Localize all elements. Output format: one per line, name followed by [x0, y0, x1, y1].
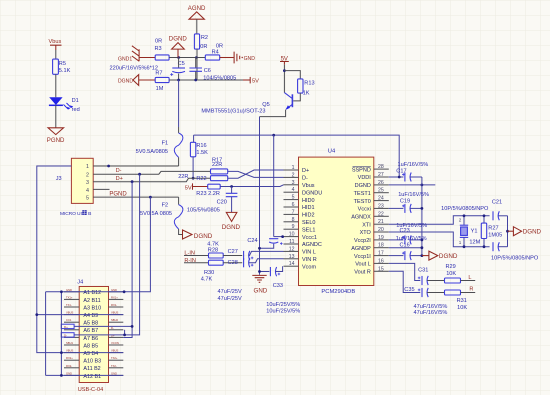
port D+ (J4 left) [61, 324, 74, 329]
svg-text:A2 B11: A2 B11 [83, 298, 100, 304]
svg-text:J4: J4 [77, 280, 83, 286]
wire [196, 19, 198, 34]
svg-text:C35: C35 [404, 287, 414, 293]
svg-text:AGNDC: AGNDC [302, 242, 322, 248]
svg-text:XTI: XTI [362, 222, 371, 228]
svg-text:3: 3 [86, 180, 89, 186]
svg-text:C33: C33 [273, 283, 283, 289]
svg-text:A12 B1: A12 B1 [83, 374, 101, 380]
wire D- column [74, 174, 140, 335]
resistor R2 [194, 34, 208, 50]
resistor R29 [445, 264, 476, 283]
wire row A1 through box [64, 291, 123, 293]
svg-text:20: 20 [378, 227, 384, 233]
wire rail to DGND [422, 255, 429, 257]
wire [220, 57, 234, 59]
svg-text:VBUS: VBUS [111, 349, 119, 353]
svg-text:VBUS: VBUS [111, 311, 119, 315]
wire [196, 49, 198, 80]
svg-text:10K: 10K [446, 271, 456, 277]
svg-text:D-: D- [116, 168, 122, 174]
crystal Y1 [459, 216, 481, 247]
SSPND overline [353, 166, 371, 168]
wire [139, 57, 155, 59]
svg-text:16: 16 [378, 258, 384, 264]
wire crossover D+/D- [228, 170, 284, 178]
svg-text:R3: R3 [155, 46, 162, 52]
svg-text:R13: R13 [304, 81, 314, 87]
wire [284, 71, 300, 79]
node [463, 214, 466, 217]
wire stub jog B7 [124, 330, 126, 335]
J4 left net labels [66, 288, 74, 376]
svg-text:D+: D+ [302, 168, 309, 174]
svg-text:4.7K: 4.7K [201, 277, 213, 283]
svg-text:C24: C24 [247, 238, 257, 244]
wire [139, 79, 156, 81]
wire (R16 top) [193, 135, 195, 142]
svg-text:0R: 0R [200, 44, 207, 50]
wire (DGND loop rail) [194, 135, 400, 177]
resistor R3 [155, 38, 170, 60]
svg-text:R2: R2 [201, 35, 208, 41]
svg-text:10: 10 [289, 232, 295, 238]
node [60, 290, 63, 293]
svg-text:GND: GND [66, 288, 72, 292]
node [123, 290, 126, 293]
node [35, 313, 38, 316]
svg-text:2: 2 [292, 172, 295, 178]
svg-text:TX1+: TX1+ [66, 295, 73, 299]
svg-text:10uF/25V/5%: 10uF/25V/5% [266, 308, 300, 314]
svg-text:47uF/25V: 47uF/25V [218, 296, 243, 302]
svg-text:A11 B2: A11 B2 [83, 366, 100, 372]
svg-text:25: 25 [378, 188, 384, 194]
wire [55, 74, 57, 97]
U4 left pin names [302, 168, 322, 270]
svg-text:RX1-: RX1- [111, 303, 117, 307]
svg-text:A8 B5: A8 B5 [83, 343, 98, 349]
capacitor C20 [217, 187, 238, 213]
capacitor C19 [389, 192, 429, 213]
power port 5V (right) [250, 77, 259, 85]
svg-text:26: 26 [378, 180, 384, 186]
svg-text:1K: 1K [303, 91, 310, 97]
node [421, 254, 424, 257]
node [283, 69, 286, 72]
svg-text:24: 24 [378, 196, 384, 202]
svg-text:2: 2 [459, 218, 462, 223]
connector J3 [56, 158, 93, 217]
svg-text:MMBT5551(G1u)/SOT-23: MMBT5551(G1u)/SOT-23 [201, 108, 265, 114]
node [60, 351, 63, 354]
svg-text:Vbus: Vbus [302, 183, 315, 189]
svg-text:GND: GND [254, 288, 268, 295]
svg-text:Vccp1I: Vccp1I [354, 254, 371, 260]
resistor R30 [184, 260, 242, 282]
wire [169, 79, 243, 81]
svg-text:R23: R23 [196, 191, 206, 197]
wire GND A12 row [46, 374, 64, 376]
svg-text:XTO: XTO [360, 230, 372, 236]
svg-text:HID1: HID1 [302, 205, 315, 211]
node [149, 196, 152, 199]
svg-text:SSPND: SSPND [352, 167, 371, 173]
svg-text:10P/5%/0805/NPO: 10P/5%/0805/NPO [491, 256, 539, 262]
U4 right pin names [351, 167, 371, 275]
svg-text:GND: GND [111, 371, 117, 375]
U4 left pins 1-14 [284, 170, 299, 266]
svg-text:5V0.5A/0805: 5V0.5A/0805 [136, 149, 168, 155]
svg-text:4: 4 [292, 187, 295, 193]
resistor R31 [445, 290, 476, 311]
ground GND (earth) [234, 52, 255, 64]
svg-text:3: 3 [292, 180, 295, 186]
svg-text:AGND: AGND [188, 5, 206, 12]
resistor R16 [190, 142, 208, 157]
svg-text:R29: R29 [446, 264, 456, 270]
capacitor C33 [260, 266, 283, 289]
svg-text:105/5%/0805: 105/5%/0805 [187, 207, 220, 213]
svg-text:R5: R5 [59, 61, 66, 67]
node [272, 134, 275, 137]
wire Vout L [389, 263, 421, 280]
node [107, 165, 110, 168]
wire pin2 (D-) [93, 171, 210, 174]
svg-text:R16: R16 [196, 143, 206, 149]
svg-text:DGND: DGND [169, 36, 188, 43]
svg-text:C28: C28 [228, 260, 238, 266]
svg-text:22R: 22R [178, 174, 188, 180]
node [138, 173, 141, 176]
resistor R23 [196, 184, 220, 197]
capacitor C22 (top) [493, 211, 508, 220]
resistor R28 [184, 241, 242, 258]
svg-text:D-: D- [64, 334, 67, 338]
ground PGND [47, 128, 65, 144]
power port AGND [188, 5, 206, 19]
wire [55, 50, 57, 59]
svg-text:12M: 12M [469, 239, 480, 245]
node [421, 239, 424, 242]
svg-text:C21: C21 [492, 199, 502, 205]
wire pin3 (D+) [93, 178, 210, 182]
node [421, 246, 424, 249]
wire Vout R [389, 271, 421, 292]
wire GND A1 row [46, 291, 64, 293]
node [281, 235, 284, 238]
wire D+ column [123, 182, 132, 338]
svg-text:0R: 0R [216, 43, 223, 49]
svg-text:4: 4 [86, 188, 89, 194]
resistor R7 [155, 71, 169, 92]
svg-text:L: L [468, 275, 471, 281]
wire [293, 93, 300, 101]
node [421, 207, 424, 210]
capacitor C27 [228, 249, 284, 260]
svg-text:DGNDU: DGNDU [302, 190, 322, 196]
node [483, 214, 486, 217]
resistor R5 [53, 59, 71, 74]
capacitor C35 [404, 287, 444, 297]
svg-text:220uF/16V/5%6*12: 220uF/16V/5%6*12 [110, 65, 159, 71]
svg-text:RX2+: RX2+ [66, 356, 73, 360]
node [258, 247, 261, 250]
wire pin4 stub [93, 188, 109, 190]
svg-text:Q5: Q5 [262, 102, 269, 108]
node [131, 325, 134, 328]
svg-text:C27: C27 [228, 249, 238, 255]
wire (emitter run) [260, 110, 286, 117]
U4 right pins 28-15 [374, 169, 389, 271]
svg-text:1uF/16V/5%: 1uF/16V/5% [398, 192, 429, 198]
wire XTO [389, 232, 490, 247]
svg-text:DGND: DGND [222, 224, 241, 231]
svg-text:5V: 5V [252, 79, 259, 85]
svg-text:Vccp2I: Vccp2I [354, 238, 371, 244]
svg-text:C6: C6 [204, 68, 211, 74]
svg-text:PCM2904DB: PCM2904DB [321, 289, 355, 295]
J4 right pin stubs [109, 292, 124, 376]
resistor R27 [481, 216, 502, 247]
svg-text:VCON: VCON [111, 341, 119, 345]
svg-text:6: 6 [292, 202, 295, 208]
svg-text:10uF/25V/5%: 10uF/25V/5% [266, 302, 300, 308]
svg-text:U4: U4 [328, 149, 336, 155]
svg-text:red: red [72, 107, 80, 113]
capacitor C31 [418, 267, 445, 285]
power port Vbus [49, 39, 62, 50]
svg-text:22: 22 [378, 211, 384, 217]
node [230, 185, 233, 188]
wire (R16 bottom) [192, 157, 194, 178]
LED D1 [49, 97, 80, 113]
power port DGND (left) [118, 75, 139, 86]
svg-text:SEL0: SEL0 [302, 220, 315, 226]
port D- (J4 left) [61, 333, 74, 338]
svg-text:R27: R27 [488, 225, 498, 231]
svg-text:Vccc1: Vccc1 [302, 235, 317, 241]
svg-text:D-: D- [302, 176, 308, 182]
svg-text:8: 8 [292, 217, 295, 223]
svg-text:DGND: DGND [194, 233, 213, 240]
U4 right pin numbers [378, 164, 384, 272]
svg-text:47uF/16V/5%: 47uF/16V/5% [414, 310, 448, 316]
svg-text:1: 1 [292, 165, 295, 171]
wire [55, 105, 57, 128]
wire pin5 [93, 196, 178, 198]
fuse F2 [140, 197, 220, 234]
capacitor C16 [389, 236, 427, 260]
node [177, 56, 180, 59]
wire cap rail [421, 177, 423, 256]
power port 5V (R23) [185, 183, 208, 191]
svg-text:DGND: DGND [523, 229, 542, 236]
svg-text:C23: C23 [400, 228, 410, 234]
resistor R13 [298, 79, 315, 97]
wire D+ to port [74, 325, 132, 327]
power port 5V (Q5) [280, 56, 289, 65]
svg-text:VDDI: VDDI [358, 175, 372, 181]
node [60, 374, 63, 377]
svg-text:R30: R30 [204, 270, 214, 276]
svg-text:12: 12 [289, 246, 295, 252]
connector J4 [77, 280, 108, 394]
svg-text:9: 9 [292, 224, 295, 230]
svg-text:A6 B7: A6 B7 [83, 328, 98, 334]
svg-text:J3: J3 [56, 176, 62, 182]
svg-text:PGND: PGND [109, 191, 127, 197]
svg-text:47uF/16V/5%: 47uF/16V/5% [414, 304, 448, 310]
svg-text:0R: 0R [155, 38, 162, 44]
wire GND right (J3 pin5 to B12) [124, 197, 150, 292]
svg-text:R: R [469, 286, 473, 292]
wire pin26 DGND [389, 184, 436, 186]
wire to DGND [508, 230, 514, 232]
svg-text:1uF/16V/5%: 1uF/16V/5% [396, 236, 427, 242]
wire (long vertical to C24) [273, 135, 275, 237]
wire row A9 through box [64, 352, 123, 354]
svg-text:5: 5 [86, 196, 89, 202]
svg-text:Vbus: Vbus [49, 39, 62, 45]
node [123, 334, 126, 337]
wire right edge [507, 216, 509, 247]
svg-text:A9 B4: A9 B4 [83, 351, 98, 357]
svg-text:F1: F1 [162, 140, 169, 146]
svg-text:7: 7 [292, 209, 295, 215]
svg-text:4.7K: 4.7K [207, 241, 219, 247]
capacitor C17 [389, 162, 429, 182]
svg-text:5: 5 [292, 195, 295, 201]
svg-text:VIN R: VIN R [302, 257, 317, 263]
J4 row texts [83, 290, 101, 380]
svg-text:HID0: HID0 [302, 198, 315, 204]
svg-text:DGND: DGND [355, 183, 371, 189]
node [483, 245, 486, 248]
wire pin18 to rail [389, 247, 422, 249]
capacitor C6 [189, 58, 236, 82]
svg-text:D1: D1 [72, 98, 79, 104]
svg-text:19: 19 [378, 235, 384, 241]
resistor R17 [211, 157, 228, 174]
svg-text:RX2-: RX2- [66, 364, 72, 368]
svg-text:TEST0: TEST0 [354, 199, 371, 205]
svg-text:SBU2: SBU2 [111, 318, 119, 322]
svg-text:TX2-: TX2- [111, 364, 117, 368]
svg-text:VIN L: VIN L [302, 250, 316, 256]
svg-text:SEL1: SEL1 [302, 227, 315, 233]
svg-text:Vout R: Vout R [354, 270, 371, 276]
svg-text:Vccxi: Vccxi [358, 207, 371, 213]
svg-text:A10 B3: A10 B3 [83, 359, 101, 365]
svg-text:15: 15 [378, 266, 384, 272]
J4 left pin stubs [64, 292, 79, 376]
svg-text:CC1: CC1 [66, 318, 72, 322]
svg-text:VBUS: VBUS [66, 311, 74, 315]
power port DGND [169, 36, 188, 58]
svg-text:27: 27 [378, 172, 384, 178]
svg-text:TX2+: TX2+ [111, 356, 118, 360]
svg-text:HID2: HID2 [302, 213, 315, 219]
svg-text:GND: GND [244, 56, 256, 62]
svg-text:10K: 10K [457, 305, 467, 311]
svg-text:SBU1: SBU1 [66, 341, 74, 345]
wire inner column [60, 292, 62, 376]
svg-text:2.2R: 2.2R [208, 191, 220, 197]
svg-text:C19: C19 [400, 198, 410, 204]
power port DGND (F2) [183, 230, 213, 240]
svg-text:R22: R22 [196, 176, 206, 182]
svg-text:5V0.5A 0805: 5V0.5A 0805 [140, 211, 172, 217]
svg-text:5.1K: 5.1K [59, 68, 71, 74]
svg-text:1: 1 [459, 240, 462, 245]
node [131, 180, 134, 183]
node [506, 230, 509, 233]
wire pin1 right [93, 165, 178, 167]
svg-text:GND: GND [66, 371, 72, 375]
svg-text:1M05: 1M05 [488, 232, 502, 238]
wire row A4 through box [64, 314, 123, 316]
node [195, 56, 198, 59]
svg-text:2: 2 [86, 172, 89, 178]
svg-text:C20: C20 [217, 199, 227, 205]
svg-text:21: 21 [378, 219, 384, 225]
IC U4 PCM2904DB [299, 149, 374, 296]
svg-text:1uF/16V/5%: 1uF/16V/5% [398, 162, 429, 168]
svg-text:R31: R31 [457, 298, 467, 304]
svg-text:1: 1 [86, 164, 89, 170]
power port DGND (cap bank) [429, 251, 458, 260]
wire (long vertical to GND) [259, 117, 261, 275]
svg-text:23: 23 [378, 203, 384, 209]
U4 left pin numbers [289, 165, 295, 267]
node (VDDI) [398, 176, 401, 179]
svg-text:Vout L: Vout L [355, 262, 371, 268]
svg-text:A1 B12: A1 B12 [83, 290, 101, 296]
svg-text:RX1+: RX1+ [111, 295, 118, 299]
svg-text:Vcom: Vcom [302, 264, 316, 270]
svg-text:GND1: GND1 [118, 56, 132, 62]
wire GND column left [45, 292, 47, 376]
capacitor C28 [228, 258, 284, 267]
fuse F1 [136, 80, 183, 166]
svg-text:17: 17 [378, 251, 384, 257]
svg-text:14: 14 [289, 261, 295, 267]
svg-text:28: 28 [378, 164, 384, 170]
ground GND (bottom) [252, 275, 267, 294]
node [463, 245, 466, 248]
capacitor C23 [389, 223, 427, 244]
node [258, 270, 261, 273]
svg-text:Y1: Y1 [471, 228, 478, 234]
svg-text:DGND: DGND [439, 253, 458, 260]
J4 right net labels [111, 288, 119, 376]
svg-text:PGND: PGND [47, 137, 65, 144]
svg-text:DGND: DGND [118, 79, 133, 85]
wire [169, 57, 205, 59]
node [192, 177, 195, 180]
svg-text:10P/5%/0805/NPO: 10P/5%/0805/NPO [441, 206, 489, 212]
svg-text:R7: R7 [155, 71, 162, 77]
wire pin1 left [37, 166, 72, 315]
svg-text:F2: F2 [162, 203, 169, 209]
svg-text:GND: GND [111, 288, 117, 292]
wire XTI [389, 216, 490, 224]
svg-text:TEST1: TEST1 [354, 191, 371, 197]
node [177, 79, 180, 82]
svg-text:USB-C-04: USB-C-04 [78, 387, 104, 393]
wire [283, 65, 285, 93]
